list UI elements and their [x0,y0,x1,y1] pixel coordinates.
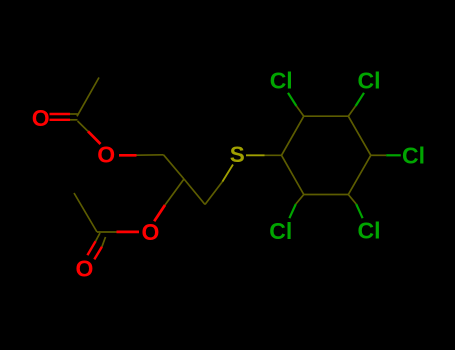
bond O2-C2' carbon half (dark) [97,231,117,233]
bond C3-S carbon half (dark) [205,182,222,205]
svg-text:O: O [76,256,94,282]
svg-text:Cl: Cl [269,218,292,244]
bond C2-C3 (dark) [184,179,205,205]
bond O1-C1 red half [119,154,137,157]
svg-text:Cl: Cl [358,67,381,93]
bond O2-C2' red half [117,231,140,234]
methyl CH3a bond (dark) [77,78,99,117]
svg-text:Cl: Cl [270,67,293,93]
benzene ring edge TL-TR [304,115,349,117]
carbonyl double bond C1'=O line 1 carbon half (dark) [70,113,78,115]
bond C1-C2 (dark) [164,155,185,179]
benzene ring edge BR-BL [304,194,349,196]
benzene ring edge R-BR [348,155,371,194]
carbonyl double bond C2'=O (bottom ester), line 2 carbon half (dark) [102,237,106,247]
bond S-ring sulfur half (bright olive) [246,154,265,156]
bond C1'-O1 carbon half (dark) [78,121,89,131]
svg-text:O: O [141,219,159,245]
bond ring-Cl(R) carbon half (dark) [371,154,386,156]
methyl CH3b bond (dark) [74,193,97,232]
bond ring-Cl(TR) carbon half (dark) [348,106,355,116]
bond ring-Cl(BR) chlorine half (green) [356,204,362,218]
bond ring-Cl(R) chlorine half (green) [386,154,401,156]
bond ring-Cl(TL) carbon half (dark) [296,106,303,116]
svg-text:O: O [97,142,115,168]
carbonyl double bond C1'=O (top-left ester), line 2 red half [50,119,71,121]
bond C1'-O1 oxygen half (red) [88,131,101,144]
bond ring-Cl(TR) chlorine half (green) [356,93,364,106]
svg-text:Cl: Cl [402,143,425,169]
bond O1-C1 carbon half (dark) [137,154,164,156]
svg-text:S: S [230,142,245,167]
bond ring-Cl(TL) chlorine half (green) [288,93,296,106]
carbonyl double bond C1'=O line 2 carbon half (dark) [70,119,78,121]
carbonyl double bond C2'=O (bottom ester), line 2 red half [94,247,102,260]
carbonyl double bond C2'=O (bottom ester), line 1 red half [87,241,95,255]
svg-text:O: O [32,105,50,131]
carbonyl double bond C2'=O (bottom ester), line 1 carbon half (dark) [96,233,100,241]
bond C3-S sulfur half (bright olive) [222,165,233,182]
benzene ring edge TR-R [348,116,371,155]
bond C2-O2 carbon half (dark) [165,179,184,205]
bond S-ring carbon half (dark) [265,154,282,156]
carbonyl double bond C1'=O (top-left ester), line 1 red half [50,113,71,115]
bond ring-Cl(BL) carbon half (dark) [296,195,304,205]
benzene ring edge L-TL [282,116,304,155]
bond C2-O2 red half [154,205,165,221]
benzene ring edge BL-L [282,155,304,194]
bond ring-Cl(BL) chlorine half (green) [289,204,295,218]
bond ring-Cl(BR) carbon half (dark) [348,195,356,205]
svg-text:Cl: Cl [358,217,381,243]
